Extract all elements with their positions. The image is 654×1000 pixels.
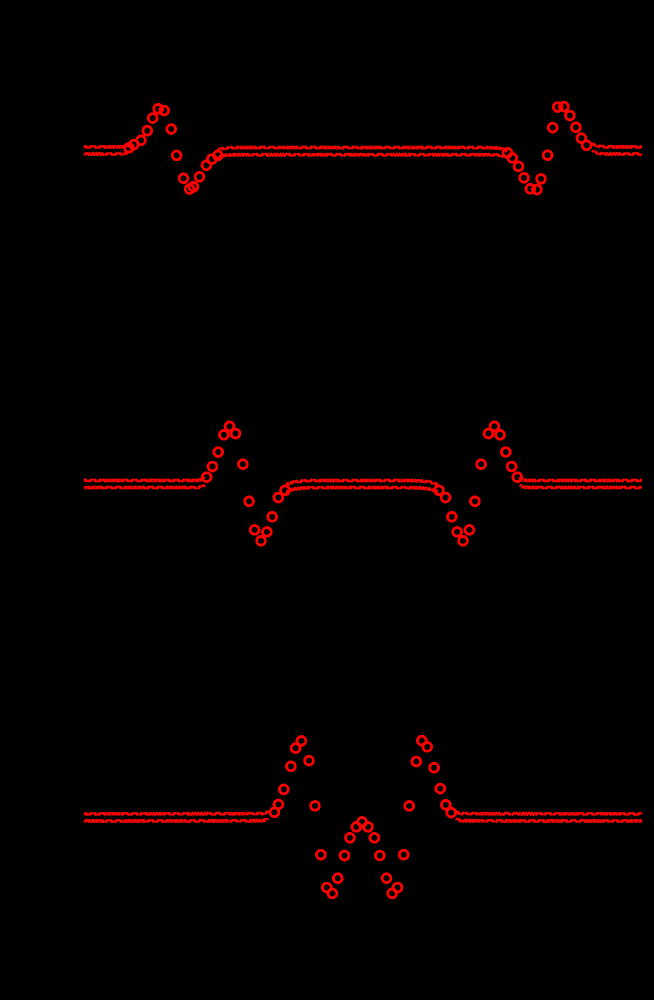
panel 3 curve (bottom): circle markers [270,736,456,898]
panel 1 curve (top): flat chain bands [84,144,642,158]
panel 1 curve (top): circle markers [124,102,590,194]
panel 2 curve (middle): flat chain bands [84,477,642,491]
panel 3 curve (bottom): flat chain bands [84,812,642,822]
panel 2 curve (middle): circle markers [202,422,521,545]
